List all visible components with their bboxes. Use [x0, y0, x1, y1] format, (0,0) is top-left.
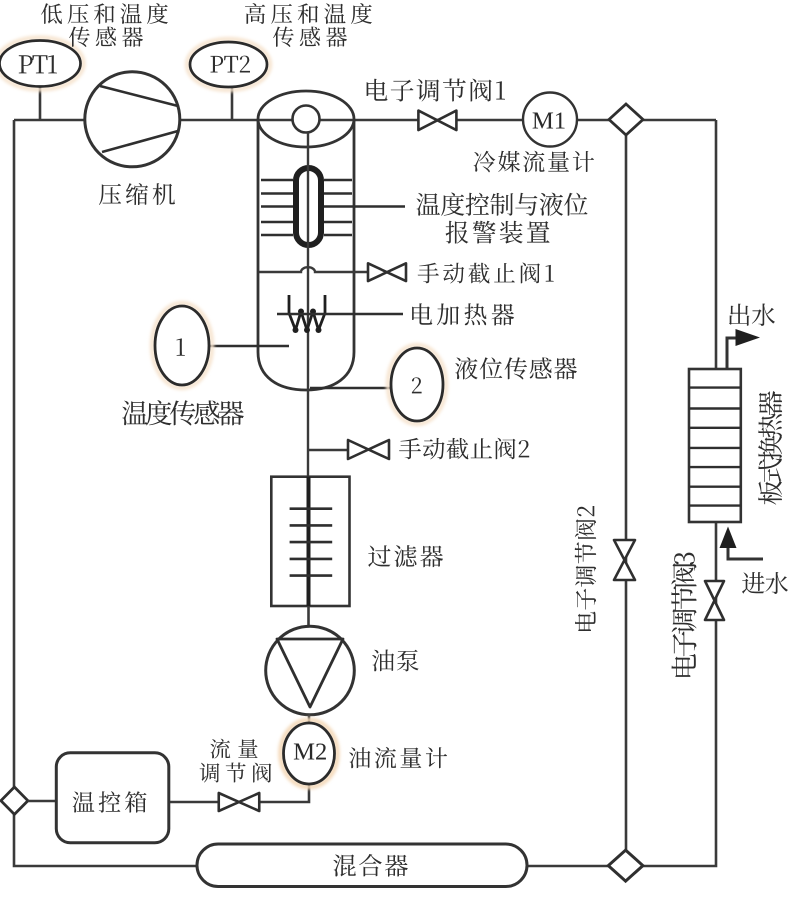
- sensor PT1 ellipse: [0, 41, 81, 87]
- wire middle vertical pipe between top diamond junction and bottom diamond junction: [625, 120, 628, 866]
- wire pipe across vessel head: [259, 119, 353, 122]
- sensor 2 ellipse: [391, 348, 443, 421]
- oil pump P1: [266, 626, 355, 715]
- label filter label: [368, 545, 443, 567]
- filter F1: [271, 477, 349, 606]
- compressor C1: [85, 72, 180, 167]
- label water inlet label: [742, 572, 788, 594]
- label electronic regulating valve 2 label (vertical): [575, 506, 596, 631]
- label PT2: [211, 56, 251, 73]
- label compressor label: [99, 183, 175, 205]
- wire PT1 sensor stem: [39, 86, 42, 120]
- sensor PT1 glow: [0, 38, 84, 90]
- water inlet arrow: [720, 527, 737, 549]
- wire vessel centre dip tube: [307, 132, 309, 477]
- vessel top nozzle circle: [293, 106, 320, 133]
- label high pressure and temperature sensor line1: [245, 3, 372, 24]
- water outlet elbow wire: [727, 338, 738, 369]
- label oil pump label: [372, 650, 419, 672]
- top-right diamond junction: [609, 104, 643, 135]
- pointer wire to electric heater label: [277, 313, 403, 316]
- label temperature control and level alarm label line2: [446, 221, 550, 244]
- vessel body of separator column: [258, 119, 354, 390]
- vessel top head ellipse: [258, 91, 354, 147]
- label 2: [412, 377, 422, 393]
- electronic regulating valve 3: [705, 581, 724, 620]
- label plate heat exchanger label (vertical): [758, 391, 782, 505]
- label temperature sensor label: [122, 400, 244, 425]
- label PT1: [19, 55, 57, 73]
- temperature control box: [56, 753, 169, 843]
- wire left pipe down from top-left corner to bottom, then right to mixer: [14, 120, 210, 866]
- wire internal line with hop to manual stop valve 1: [259, 267, 368, 272]
- wire mixer to bottom diamond junction: [527, 865, 626, 868]
- manual stop valve 1: [368, 263, 406, 281]
- label electronic regulating valve 3 label (vertical): [671, 553, 696, 677]
- pointer wire from sensor 1 into vessel: [209, 345, 289, 348]
- mixer vessel: [197, 844, 527, 887]
- svg-text:M2: M2: [293, 738, 327, 765]
- water inlet elbow wire: [728, 545, 763, 559]
- wire M2 down and left to flow regulating valve: [169, 783, 309, 802]
- label temperature control box label: [73, 791, 147, 812]
- level gauge capsule (temperature control and level alarm device): [296, 168, 321, 245]
- wire main top pipe from left corner to top-right corner: [14, 119, 716, 122]
- label oil flow meter label: [349, 747, 447, 769]
- label mixer label: [333, 854, 408, 877]
- wire top pipe segment crossing vessel head: [258, 119, 354, 122]
- label liquid level sensor label: [455, 357, 577, 379]
- manual stop valve 2: [348, 440, 389, 459]
- sensor 1 glow: [152, 303, 212, 388]
- sensor 1 ellipse: [155, 306, 209, 385]
- electric heater element: [289, 295, 325, 333]
- flow meter M2 glow: [281, 720, 338, 787]
- right fins of level gauge: [324, 180, 352, 235]
- label electric heater label: [412, 303, 514, 325]
- wire oil pump to flow meter M2: [308, 714, 311, 725]
- svg-text:M1: M1: [532, 107, 566, 134]
- flow regulating valve: [219, 793, 260, 811]
- left fins of level gauge: [261, 180, 293, 235]
- sensor PT2 ellipse: [190, 42, 267, 87]
- label low pressure and temperature sensor line2: [69, 27, 143, 48]
- wire filter to oil pump: [307, 606, 310, 628]
- label refrigerant flow meter label: [474, 151, 594, 173]
- label high pressure and temperature sensor line2: [273, 27, 347, 48]
- label flow regulating valve label line2: [200, 763, 272, 783]
- flow meter M1 circle: [523, 93, 577, 147]
- label electronic regulating valve 1 label: [367, 79, 505, 102]
- label low pressure and temperature sensor line1: [41, 3, 168, 24]
- plate heat exchanger body: [689, 369, 741, 522]
- pointer wire from vessel bottom to sensor 2: [310, 387, 392, 390]
- wire diamond to temperature control box: [28, 800, 58, 803]
- left diamond junction: [1, 787, 28, 814]
- electronic regulating valve 1: [418, 111, 456, 131]
- pointer wire to temperature-control/level-alarm label: [324, 205, 405, 208]
- label 1: [177, 338, 185, 355]
- label water outlet label: [729, 304, 775, 327]
- wire PT2 sensor stem: [231, 86, 234, 120]
- bottom diamond junction: [608, 850, 643, 881]
- electronic regulating valve 2: [614, 540, 635, 580]
- label manual stop valve 1 label: [418, 263, 554, 284]
- label temperature control and level alarm label line1: [417, 193, 588, 216]
- label flow regulating valve label line1: [210, 739, 257, 759]
- wire right pipe down from top-right corner to bottom-right corner then left to junction: [626, 120, 716, 866]
- sensor 2 glow: [388, 345, 446, 424]
- stub wire to manual stop valve 2: [308, 449, 350, 451]
- water outlet arrow: [736, 329, 761, 346]
- sensor PT2 glow: [187, 39, 270, 90]
- flow meter M2 ellipse: [284, 723, 335, 784]
- label manual stop valve 2 label: [399, 438, 529, 460]
